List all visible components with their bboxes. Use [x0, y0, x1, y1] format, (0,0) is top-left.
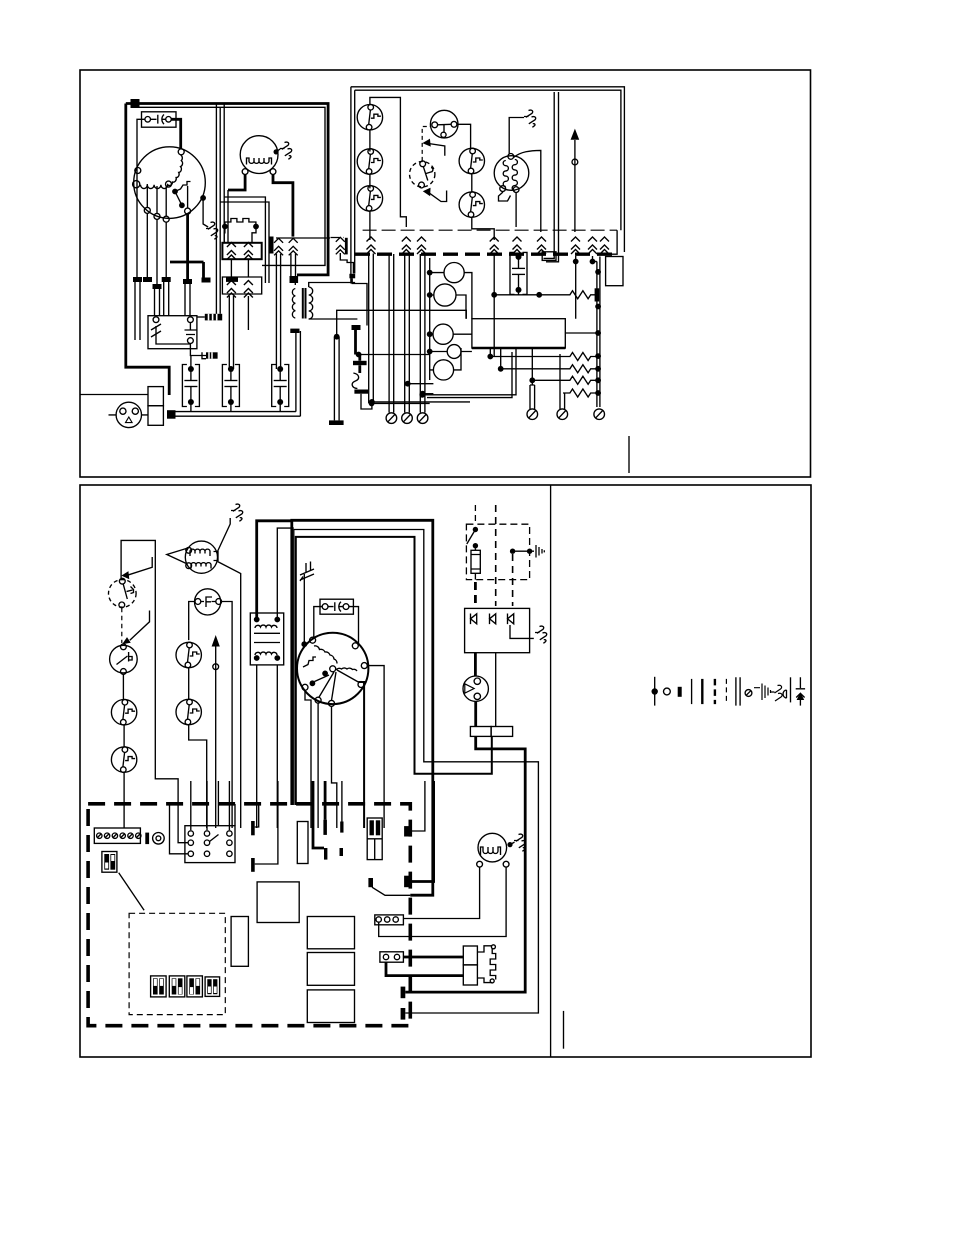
enclosure nest A — [292, 520, 433, 895]
wire rollout column — [457, 124, 494, 240]
wire switch column — [370, 97, 406, 227]
wire dashed PS link — [422, 127, 431, 161]
dip block 3 — [187, 976, 203, 997]
relay circle K2 — [434, 284, 456, 306]
wire inducer lower leads — [379, 867, 506, 936]
junction box rects — [148, 387, 163, 406]
ground chassis motor — [206, 222, 218, 239]
plug striped — [206, 352, 218, 358]
wire inducer right drop — [218, 562, 241, 829]
pressure switch dashed bottom — [109, 580, 137, 608]
arrow mark B1 — [128, 557, 153, 575]
relay rect big — [257, 882, 299, 923]
switch circle chain3 — [111, 699, 136, 725]
control board CPU — [472, 319, 565, 348]
switch interlock — [473, 527, 478, 532]
ground inducer schematic — [217, 518, 230, 553]
wire L1 feed — [126, 102, 222, 105]
fuse F1 box — [142, 112, 177, 127]
legend open circle — [664, 688, 671, 695]
motor blower big — [297, 633, 368, 704]
resistor R2 — [487, 354, 493, 360]
legend filled bar — [678, 687, 682, 697]
fuse interlock — [471, 550, 480, 573]
plug P1 power — [116, 402, 141, 427]
connector strip dashed thick — [355, 252, 612, 255]
door switch box assembly — [465, 608, 530, 652]
enclosure inner box — [351, 87, 625, 252]
dip pair right — [367, 818, 382, 860]
capacitor C3 — [272, 365, 289, 407]
ground inducer — [280, 142, 292, 159]
wire inducer left lead — [228, 175, 245, 191]
wire stub feeds — [313, 781, 325, 848]
connector block CB1 — [222, 243, 261, 259]
wire cap drops to rail — [191, 402, 280, 412]
divider line bottom box — [550, 485, 552, 1057]
wire rail double — [172, 412, 301, 417]
legend coil glyph — [783, 690, 787, 698]
dip block 1 — [151, 976, 167, 997]
heater HTR squiggle — [352, 373, 358, 389]
wire valve to pin — [514, 150, 541, 232]
legend chassis ground — [754, 684, 771, 701]
node L1 feed square — [131, 99, 140, 108]
ignitor HSI — [463, 946, 477, 965]
capacitor C2 — [222, 365, 239, 407]
door switch S1 box — [148, 316, 197, 349]
capacitor C4 — [510, 252, 527, 294]
wire fuse left lead — [137, 119, 145, 278]
connector 9pin — [185, 826, 235, 863]
connector pins left pair — [270, 237, 274, 254]
wire rail to transformer pair — [296, 331, 301, 416]
LED indicator — [153, 833, 165, 845]
limit control circle — [110, 645, 138, 673]
connector pin0 — [345, 238, 348, 255]
white rect relay small — [297, 822, 308, 864]
connector block CB2 — [222, 277, 261, 294]
relay circle K1 — [444, 263, 464, 283]
wire block out thick — [405, 736, 525, 992]
wire inducer right lead — [273, 175, 293, 237]
arrow mark B2 — [130, 611, 150, 641]
wire motor leads down — [146, 213, 148, 277]
arrow mark A1 — [429, 144, 445, 156]
legend thin line — [691, 679, 693, 704]
fuse link striped — [205, 314, 222, 321]
wire fuse right lead — [171, 119, 180, 149]
limit switch mid1 — [176, 642, 201, 668]
node rail square — [167, 410, 176, 419]
wire ignitor feeds — [386, 957, 463, 976]
ground interlock — [510, 549, 515, 554]
legend screw — [745, 690, 752, 697]
ground gas valve — [524, 110, 536, 127]
legend thick dashed — [714, 679, 716, 704]
wire screw drops right — [530, 385, 535, 409]
motor inducer schematic — [185, 541, 217, 573]
capacitor C1 — [182, 365, 199, 407]
relay circle K3 — [433, 324, 453, 344]
wire inner pair right — [544, 92, 559, 262]
dip block 4 — [205, 977, 220, 997]
limit switch LS1 — [357, 104, 382, 130]
limit switch LS2 — [357, 149, 382, 175]
wire chevron 575 drop — [573, 259, 579, 265]
wire pin drops — [369, 254, 374, 404]
resistor R1 — [491, 292, 497, 298]
screw terminals left trio — [389, 254, 394, 413]
wire border lead — [80, 394, 148, 396]
connector stubs mid — [323, 820, 327, 835]
dashed panel — [129, 913, 225, 1014]
stub diag — [368, 878, 373, 887]
legend plug pin — [796, 677, 805, 697]
wire dashed drops — [474, 505, 476, 521]
relay rects stack — [307, 917, 354, 949]
limit switch LS3 — [357, 186, 382, 212]
wire motor right dot to ground — [203, 198, 208, 227]
fan switch circle — [195, 589, 221, 615]
wire double bottom left — [419, 392, 425, 398]
resistor R3 — [498, 366, 504, 372]
wire feed extension corner — [222, 104, 328, 275]
plug 3pin — [375, 915, 404, 925]
limit switch mid2 — [176, 699, 201, 725]
terminal strip TS — [94, 828, 140, 843]
wire bundle jogs — [220, 197, 269, 283]
legend field ground — [771, 685, 783, 701]
terminal block TB — [470, 727, 491, 737]
screw terminal ST5 — [557, 409, 568, 420]
ground chassis mid — [300, 562, 314, 582]
wire dashed link — [121, 608, 123, 643]
pointer line — [119, 873, 144, 911]
relay circle K5 — [433, 360, 453, 380]
wire cap feeds top — [229, 296, 233, 369]
right jog rect — [606, 257, 623, 286]
switch circle chain4 — [111, 747, 136, 773]
wire stub pair mid — [334, 334, 340, 340]
sensor arrow mid — [215, 646, 217, 828]
transformer box bottom — [250, 613, 283, 665]
resistor R5 — [563, 389, 598, 397]
motor inducer lower — [478, 833, 507, 862]
connector pins strip — [367, 237, 376, 254]
capacitor fuse box blower — [320, 599, 353, 614]
wire transformer drops — [257, 665, 278, 828]
motor M1 blower — [134, 147, 206, 219]
stubs right edge — [404, 826, 409, 836]
draft safeguard switch circle — [430, 110, 458, 138]
node transformer top — [290, 276, 299, 283]
enclosure border bottom box — [80, 485, 811, 1057]
gas valve GV — [494, 156, 529, 191]
rollout switch RS1 — [459, 148, 484, 174]
legend thick line — [701, 679, 703, 704]
arrow mark A2 — [429, 191, 447, 202]
interlock dashed box — [466, 524, 529, 579]
legend double line — [736, 677, 740, 705]
wire blower leads — [367, 666, 384, 828]
bus stub bars — [133, 277, 142, 282]
wire fan leads — [189, 602, 232, 829]
transformer T1 — [292, 289, 295, 319]
relay circle K4 — [447, 345, 461, 359]
enclosure nest C — [296, 537, 492, 805]
dip switch pair — [102, 852, 117, 873]
wire door drops — [474, 653, 477, 677]
wire bundle verticals — [216, 104, 220, 314]
enclosure nest B — [294, 530, 539, 1014]
wire chain verticals — [122, 674, 125, 828]
door light — [463, 676, 488, 701]
rollout switch RS2 — [459, 192, 484, 218]
bar black — [145, 833, 149, 845]
legend junction dot — [654, 677, 656, 706]
screw terminal ST4 — [527, 409, 538, 420]
relay rect tall — [231, 917, 248, 967]
wires into 9pin — [191, 781, 230, 830]
screw terminal ST6 — [594, 409, 605, 420]
connector stubs left — [251, 821, 255, 835]
wire board to bus — [565, 332, 598, 334]
enclosure border top box — [80, 70, 811, 477]
sequencer SEQ squiggle — [225, 219, 256, 227]
pressure switch PS dashed — [410, 162, 435, 187]
wire right bus — [597, 257, 600, 408]
stray mark right — [563, 1011, 565, 1049]
dip block 2 — [169, 976, 185, 997]
resistor R4 — [532, 376, 597, 384]
connector strip dashed thin — [363, 229, 617, 231]
plug 2pin — [380, 952, 404, 962]
wire stub drops — [135, 282, 140, 340]
legend thin dashed — [725, 679, 727, 704]
flame sensor arrow — [574, 140, 576, 232]
wire mid column — [189, 668, 207, 828]
control box dashed border — [88, 804, 410, 1026]
stray mark — [628, 436, 630, 473]
small rect connector — [542, 252, 556, 261]
wire left bus relays — [429, 258, 431, 380]
node enclosure left — [349, 274, 355, 279]
wire chain frame — [121, 540, 178, 828]
ground door box — [535, 626, 547, 643]
motor M2 inducer — [240, 136, 278, 174]
